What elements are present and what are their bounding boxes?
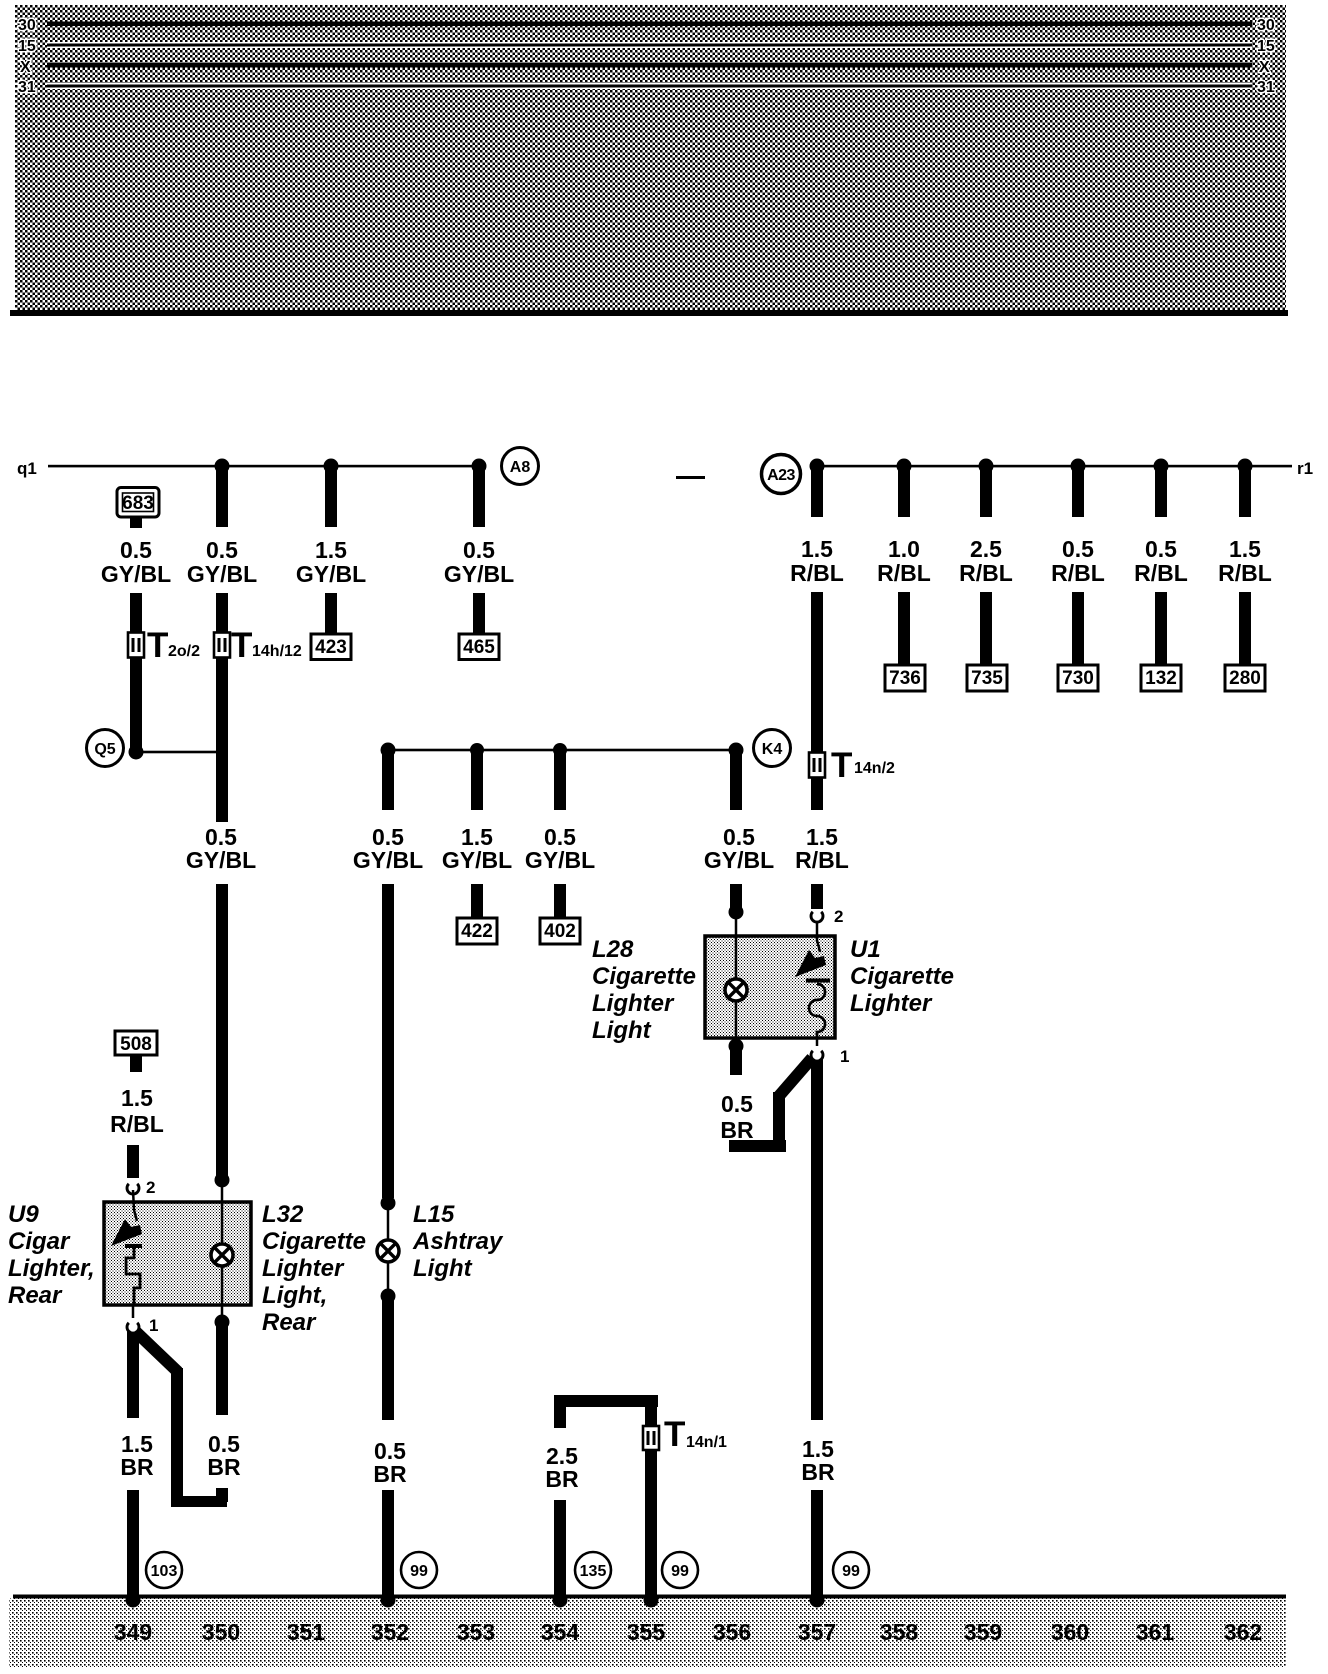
wire U1 ground (track 357) upper section [811,1056,823,1420]
U1 terminal 2 [811,907,843,926]
continuation dash between A8 and A23 [676,476,705,479]
wire stub to connection 280 [1239,592,1251,665]
connection indicator 730 [1058,665,1098,691]
component label L15 Ashtray Light [412,1201,504,1282]
svg-text:L32: L32 [262,1201,304,1228]
svg-text:423: 423 [315,637,347,658]
svg-text:GY/BL: GY/BL [525,847,595,873]
svg-text:132: 132 [1145,668,1177,689]
connection indicator 280 [1225,665,1265,691]
svg-text:357: 357 [798,1619,836,1645]
wire down to lamp L15 [382,884,394,1198]
svg-text:R/BL: R/BL [959,560,1013,586]
wire L28 ground stub [730,1046,742,1075]
svg-text:103: 103 [151,1563,178,1580]
U9 terminal 1 [127,1305,158,1335]
value label 1.0 R/BL (wire 736) [877,536,931,586]
wire stub down from K4 at x388 [382,750,394,810]
wire stub to connection 402 [554,884,566,918]
ground designation 99 (track 355) [662,1552,698,1588]
junction Q5/track350 wire [216,746,228,758]
wire stub to connection 423 [325,593,337,634]
ground terminal blob track 349 [126,1593,141,1608]
svg-text:355: 355 [627,1619,666,1645]
svg-text:402: 402 [544,921,576,942]
connector designation A23 [762,455,801,494]
svg-text:1.5: 1.5 [1229,536,1261,562]
junction blob above L32 [215,1173,230,1188]
value label 0.5 R/BL (wire 730) [1051,536,1105,586]
wire stub to connection 735 [980,592,992,665]
connector T2o/2 [128,626,200,665]
wire stub down from r1 at x817 [811,466,823,517]
junction r1/wire735 [979,459,994,474]
top power-rail halftone band [15,5,1286,310]
svg-text:R/BL: R/BL [1218,560,1272,586]
wire jog horizontal bar [171,1496,227,1507]
ground terminal blob track 352 [381,1593,396,1608]
ground designation 135 [575,1552,611,1588]
wire stub to U1 pin 2 [811,884,823,909]
svg-text:350: 350 [202,1619,240,1645]
ground halftone band [9,1599,1286,1668]
connection indicator 402 [540,918,580,944]
value label 2.5 BR (track 354 wire) [545,1443,579,1492]
connection indicator 683 [117,488,159,529]
wire U1 ground lower section to track 357 [811,1490,823,1600]
svg-text:A23: A23 [767,467,795,484]
svg-text:30: 30 [1257,17,1275,34]
svg-text:BR: BR [373,1461,407,1487]
value label 0.5 GY/BL (track 352 wire) [444,537,514,587]
ground designation 99 (track 357) [833,1552,869,1588]
component label L32 Cigarette Lighter Light, Rear [262,1201,366,1336]
svg-text:0.5: 0.5 [120,537,152,563]
connection indicator 422 [457,918,497,944]
value label 1.5 GY/BL (track 351 wire) [296,537,366,587]
ground terminal blob track 354 [553,1593,568,1608]
value label 1.5 BR (track 357 wire) [801,1436,835,1485]
svg-text:Cigarette: Cigarette [592,963,696,990]
junction q1/track350 [215,459,230,474]
wire bus terminal 15 [47,42,1252,48]
U1 terminal 1 [811,1047,849,1066]
junction q1/track352 [472,459,487,474]
svg-text:354: 354 [541,1619,580,1645]
value label 0.5 GY/BL (L28 feed) [704,824,774,873]
svg-text:2: 2 [146,1178,155,1197]
svg-text:Lighter: Lighter [592,990,675,1017]
svg-text:422: 422 [461,921,493,942]
ground designation 99 (track 352) [401,1552,437,1588]
svg-text:GY/BL: GY/BL [186,847,256,873]
lamp L15 [377,1203,399,1292]
svg-text:A8: A8 [510,459,531,476]
svg-text:362: 362 [1224,1619,1262,1645]
svg-text:15: 15 [1257,38,1275,55]
connector designation A8 [502,448,539,485]
svg-text:360: 360 [1051,1619,1089,1645]
value label 0.5 BR (track 352 wire) [373,1438,407,1487]
svg-text:T: T [147,626,168,665]
junction r1/wire736 [897,459,912,474]
value label 0.5 GY/BL (L15 feed) [353,824,423,873]
U1 heater element with plug arrow [795,921,830,1046]
svg-text:Lighter: Lighter [850,990,933,1017]
svg-text:Ashtray: Ashtray [412,1228,504,1255]
wire stub to lamp L28 [730,884,742,908]
wire U9 ground (track 349) upper section [127,1328,139,1418]
svg-text:T: T [664,1415,685,1454]
svg-text:465: 465 [463,637,495,658]
svg-text:359: 359 [964,1619,1002,1645]
value label 1.5 R/BL (wire 280) [1218,536,1272,586]
svg-text:1.5: 1.5 [121,1085,153,1111]
svg-text:GY/BL: GY/BL [442,847,512,873]
svg-text:R/BL: R/BL [1134,560,1188,586]
value label 0.5 GY/BL (L32 feed) [186,824,256,873]
svg-text:BR: BR [120,1454,154,1480]
wire jog L28 ground to U1 pin1: horizontal bar [729,1140,786,1152]
wire stub down from r1 at x1161 [1155,466,1167,517]
svg-text:1.5: 1.5 [315,537,347,563]
wire U9 ground lower section to track 349 [127,1490,139,1600]
svg-text:Rear: Rear [262,1309,317,1336]
junction blob above L15 [381,1196,396,1211]
svg-text:T: T [231,626,252,665]
svg-text:BR: BR [720,1117,754,1143]
svg-text:0.5: 0.5 [1145,536,1177,562]
svg-text:14n/1: 14n/1 [686,1434,727,1451]
value label 1.5 R/BL (U1 pin2 feed) [795,824,849,873]
svg-text:L15: L15 [413,1201,455,1228]
connection indicator 508 [115,1031,157,1072]
wire stub to connection 465 [473,593,485,634]
svg-text:Lighter: Lighter [262,1255,345,1282]
component label U9 Cigar Lighter, Rear [8,1201,95,1309]
wire L32 ground stub lower piece [216,1488,228,1502]
junction K4/wire402 [553,743,567,757]
wire stub to U9 pin 2 [127,1145,139,1178]
wire L15 ground upper section [382,1296,394,1420]
wire L32 ground stub [216,1322,228,1415]
svg-text:99: 99 [410,1563,428,1580]
component label U1 Cigarette Lighter [850,936,954,1017]
wire loop right leg to track 355 [645,1395,657,1600]
wire jog vertical drop [171,1368,183,1507]
svg-text:GY/BL: GY/BL [704,847,774,873]
wire stub down from r1 at x904 [898,466,910,517]
connection indicator 423 [311,634,351,660]
wire bus terminal 31 [47,83,1252,89]
svg-text:1: 1 [840,1047,849,1066]
svg-text:0.5: 0.5 [721,1091,753,1117]
wire stub down from K4 at x477 [471,750,483,810]
wire jog U9 pin1 to L32 ground: diagonal [133,1329,178,1372]
lamp L32 [211,1180,233,1318]
svg-text:r1: r1 [1297,459,1313,478]
junction blob above L28 [729,905,744,920]
wire stub down from K4 at x736 [730,750,742,810]
junction K4/wire422 [470,743,484,757]
svg-text:361: 361 [1136,1619,1175,1645]
wire 2.5 BR loop top bar [554,1395,658,1407]
value label 1.5 R/BL (U9 pin2 feed) [110,1085,164,1137]
junction blob below L32 [215,1315,230,1330]
connection indicator 465 [459,634,499,660]
U9 terminal 2 [127,1178,155,1197]
svg-text:U1: U1 [850,936,881,963]
wire down to lamp L32 [216,884,228,1176]
svg-text:735: 735 [971,668,1003,689]
svg-text:31: 31 [1257,79,1275,96]
junction K4 right end (L28 wire) [729,743,744,758]
wire from 683 to node Q5 [130,593,142,752]
wire stub down from q1 at x331 [325,466,337,527]
node K4 designation [754,730,791,767]
wire jog diagonal to pin 1 [779,1058,812,1096]
svg-text:0.5: 0.5 [206,537,238,563]
svg-text:K4: K4 [762,741,783,758]
value label 0.5 BR (L28 ground) [720,1091,754,1143]
wire K4 tie line [388,749,736,752]
svg-text:R/BL: R/BL [110,1111,164,1137]
svg-text:0.5: 0.5 [463,537,495,563]
svg-text:15: 15 [18,38,36,55]
svg-text:T: T [831,746,852,785]
svg-text:31: 31 [18,79,36,96]
svg-text:Lighter,: Lighter, [8,1255,95,1282]
wire stub to connection 422 [471,884,483,918]
svg-text:GY/BL: GY/BL [296,561,366,587]
ground terminal blob track 357 [810,1593,825,1608]
wire stub to connection 736 [898,592,910,665]
wire q1 bus [48,465,480,468]
svg-text:GY/BL: GY/BL [353,847,423,873]
svg-text:280: 280 [1229,668,1261,689]
wire stub down from q1 at x222 [216,466,228,527]
svg-text:R/BL: R/BL [795,847,849,873]
ground terminal blob track 355 [644,1593,659,1608]
svg-text:0.5: 0.5 [1062,536,1094,562]
junction r1/track357 [810,459,825,474]
svg-text:683: 683 [122,493,154,514]
svg-text:356: 356 [713,1619,751,1645]
junction r1/wire132 [1154,459,1169,474]
node Q5 designation [87,730,124,767]
svg-text:730: 730 [1062,668,1094,689]
svg-text:349: 349 [114,1619,152,1645]
svg-text:99: 99 [671,1563,689,1580]
svg-text:353: 353 [457,1619,495,1645]
svg-text:X: X [20,59,31,76]
value label 1.5 GY/BL (wire 422) [442,824,512,873]
svg-text:1: 1 [149,1316,158,1335]
wire r1 to U1 pin2 upper section [811,592,823,810]
svg-text:q1: q1 [17,459,37,478]
svg-text:1.5: 1.5 [801,536,833,562]
connection indicator 735 [967,665,1007,691]
svg-text:Cigarette: Cigarette [262,1228,366,1255]
value label 1.5 R/BL (track 357 wire) [790,536,844,586]
value label 0.5 GY/BL (wire 683) [101,537,171,587]
svg-text:BR: BR [801,1459,835,1485]
svg-text:135: 135 [580,1563,607,1580]
svg-text:2: 2 [834,907,843,926]
connection indicator 736 [885,665,925,691]
wire 2.5 BR left leg upper stub [554,1395,566,1428]
component label L28 Cigarette Lighter Light [592,936,696,1044]
connector T14n/1 [643,1415,727,1454]
svg-text:X: X [1259,59,1270,76]
svg-text:U9: U9 [8,1201,39,1228]
svg-text:1.0: 1.0 [888,536,920,562]
wire stub to connection 132 [1155,592,1167,665]
svg-text:30: 30 [18,17,36,34]
svg-text:Cigarette: Cigarette [850,963,954,990]
svg-text:736: 736 [889,668,921,689]
wire jog vertical riser [773,1092,785,1152]
svg-text:14n/2: 14n/2 [854,760,895,777]
value label 0.5 GY/BL (wire 402) [525,824,595,873]
top band bottom border [10,310,1288,316]
svg-text:14h/12: 14h/12 [252,643,302,660]
wire q1 to L32 upper section [216,593,228,822]
svg-text:R/BL: R/BL [790,560,844,586]
svg-text:GY/BL: GY/BL [444,561,514,587]
cigarette lighter U1 housing [705,936,835,1038]
wire Q5 tie line [136,751,222,754]
svg-text:BR: BR [545,1466,579,1492]
wire bus terminal X [47,63,1252,68]
lamp L28 [725,912,747,1038]
value label 0.5 BR (L32 ground) [207,1431,241,1480]
value label 1.5 BR (track 349 wire) [120,1431,154,1480]
value label 2.5 R/BL (wire 735) [959,536,1013,586]
svg-text:2o/2: 2o/2 [168,643,200,660]
wire bus terminal 30 [47,22,1252,27]
junction blob below L28 [729,1039,744,1054]
ground rail [13,1595,1286,1599]
svg-text:Q5: Q5 [94,741,115,758]
wire stub down from q1 at x479 [473,466,485,527]
svg-text:Light,: Light, [262,1282,327,1309]
connector T14h/12 [214,626,302,665]
svg-text:2.5: 2.5 [970,536,1002,562]
connector T14n/2 [809,746,895,785]
svg-text:GY/BL: GY/BL [101,561,171,587]
svg-text:508: 508 [120,1034,152,1055]
svg-text:352: 352 [371,1619,409,1645]
svg-text:Light: Light [413,1255,473,1282]
junction r1/wire280 [1238,459,1253,474]
svg-text:358: 358 [880,1619,919,1645]
wire stub down from r1 at x986 [980,466,992,517]
svg-text:99: 99 [842,1563,860,1580]
junction Q5 left end [129,745,144,760]
svg-text:351: 351 [287,1619,326,1645]
svg-text:R/BL: R/BL [877,560,931,586]
ground designation 103 [146,1552,182,1588]
svg-text:R/BL: R/BL [1051,560,1105,586]
wire 2.5 BR left leg to track 354 [554,1500,566,1600]
svg-text:Cigar: Cigar [8,1228,71,1255]
U9 heater element with plug arrow [111,1190,142,1305]
value label 0.5 GY/BL (track 350 wire) [187,537,257,587]
cigar lighter U9 housing [104,1202,251,1305]
wire stub down from K4 at x560 [554,750,566,810]
junction K4 left end (track 352 wire) [381,743,396,758]
wire stub down from r1 at x1078 [1072,466,1084,517]
junction blob below L15 [381,1289,396,1304]
connection indicator 132 [1141,665,1181,691]
svg-text:GY/BL: GY/BL [187,561,257,587]
wire stub down from r1 at x1245 [1239,466,1251,517]
junction r1/wire730 [1071,459,1086,474]
svg-text:Rear: Rear [8,1282,63,1309]
wire L15 ground lower section to track 352 [382,1490,394,1600]
junction q1/track351 [324,459,339,474]
wire stub to connection 730 [1072,592,1084,665]
svg-text:BR: BR [207,1454,241,1480]
wire r1 bus [817,465,1292,468]
svg-text:Light: Light [592,1017,652,1044]
svg-text:L28: L28 [592,936,634,963]
value label 0.5 R/BL (wire 132) [1134,536,1188,586]
